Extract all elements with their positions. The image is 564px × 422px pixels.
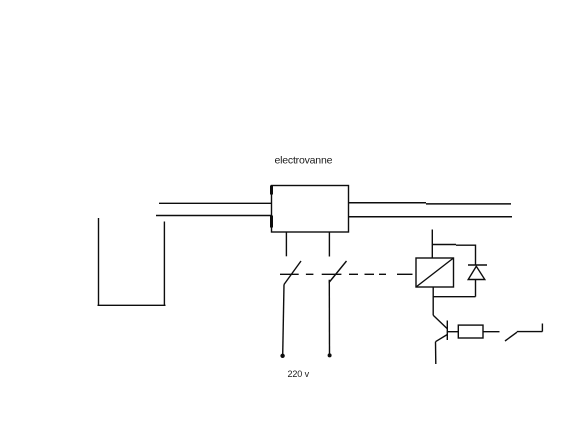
wire pipe upper-right — [349, 203, 512, 204]
wire emitter tail — [435, 342, 437, 364]
mechanical link dash 7 — [397, 273, 413, 275]
wire relay top stub — [431, 230, 433, 259]
tank left wall — [98, 218, 100, 306]
mechanical link dash 1 — [280, 273, 299, 275]
mechanical link dash 5 — [365, 273, 375, 275]
relay coil K1 diagonal — [416, 258, 454, 287]
switch S1 blade — [284, 261, 301, 285]
transistor Q1 collector diagonal — [433, 315, 447, 328]
terminal dot node 220v-left — [280, 354, 284, 358]
switch S3 blade — [505, 332, 517, 341]
terminal dot node 220v-right — [328, 353, 332, 357]
thick mark on EV1 left edge (top) — [270, 186, 273, 195]
tank bottom — [98, 304, 166, 306]
transistor Q1 emitter diagonal — [436, 335, 448, 342]
svg-text:electrovanne: electrovanne — [275, 155, 333, 167]
tank right wall — [163, 222, 165, 306]
wire base lead — [447, 331, 458, 333]
wire diode top drop — [475, 245, 477, 266]
mechanical link dash 2 — [306, 273, 314, 275]
electrovalve box EV1 — [272, 186, 349, 233]
wire switch S3 up stub — [541, 324, 543, 332]
mechanical link dash 4 — [349, 273, 358, 275]
wire pipe lower-right — [349, 216, 513, 218]
switch S2 blade — [329, 261, 347, 283]
wire diode bottom lead — [475, 280, 477, 297]
wire relay top branch — [432, 244, 476, 247]
resistor R1 — [458, 325, 483, 338]
transistor Q1 base bar — [446, 321, 448, 341]
wire switch S1 top stub — [285, 232, 287, 256]
mechanical link dash 3 — [322, 273, 342, 275]
wire bottom loop — [433, 296, 476, 298]
diode D1 triangle — [468, 266, 485, 279]
wire switch S1 bottom lead — [283, 285, 284, 356]
relay coil K1 box — [416, 258, 454, 287]
thick mark on EV1 left edge (lower) — [270, 216, 273, 228]
wire switch S2 top stub — [328, 232, 330, 257]
wire pipe upper-left — [159, 202, 272, 204]
wire pipe lower-left — [156, 215, 272, 217]
diode D1 cathode bar — [468, 264, 487, 266]
mechanical link dash 6 — [379, 273, 386, 275]
wire relay bottom stub to collector — [432, 287, 434, 315]
svg-text:220 v: 220 v — [288, 369, 310, 379]
wire switch S2 bottom lead — [328, 280, 330, 356]
wire resistor right lead — [483, 331, 500, 333]
wire switch S3 right lead — [517, 331, 543, 333]
